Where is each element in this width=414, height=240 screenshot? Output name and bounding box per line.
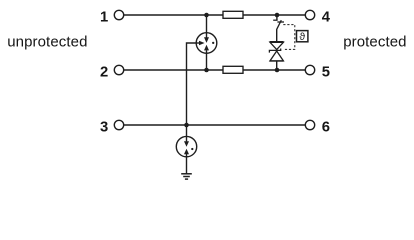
gas discharge tube F1 [196, 33, 217, 54]
svg-text:5: 5 [322, 64, 330, 80]
resistor R1 [223, 11, 243, 18]
dashed link switch to thermal sensor to V1 [283, 25, 295, 50]
wire line3 terminal3 to terminal6 [124, 124, 306, 126]
terminal 5 circle [305, 65, 314, 74]
junction node line2/F1 [204, 68, 209, 73]
terminal 2 circle [114, 65, 123, 74]
svg-text:protected: protected [343, 34, 406, 51]
svg-text:unprotected: unprotected [7, 34, 87, 51]
svg-text:ϑ: ϑ [299, 31, 305, 43]
TVS suppressor diode V1 [269, 42, 283, 61]
terminal 6 circle [305, 120, 314, 129]
wire F1 third electrode to line3 [187, 43, 200, 125]
thermal sensor box [297, 31, 308, 42]
svg-text:6: 6 [322, 119, 330, 135]
resistor R2 [223, 66, 243, 73]
thermal disconnect switch [273, 20, 284, 30]
junction node line1/right branch [275, 13, 280, 18]
svg-text:2: 2 [100, 64, 108, 80]
terminal 3 circle [114, 120, 123, 129]
wire vertical arrester branch x=206.5 line1 to line2 [206, 15, 208, 70]
svg-text:4: 4 [322, 9, 331, 25]
junction node line3/F2 [184, 123, 189, 128]
terminal 4 circle [305, 10, 314, 19]
junction node line1/F1 [204, 13, 209, 18]
ground [181, 174, 192, 179]
junction node line2/right branch [275, 68, 280, 73]
wire line2 terminal2 to terminal5 [124, 69, 306, 71]
gas discharge tube F2 [176, 136, 196, 157]
wire right branch x=277 line1 to line2 [276, 15, 278, 20]
svg-text:3: 3 [100, 119, 108, 135]
terminal 1 circle [114, 10, 123, 19]
svg-text:1: 1 [100, 9, 108, 25]
wire line3 junction to F2 and ground [186, 125, 188, 174]
wire line1 terminal1 to terminal4 [124, 14, 306, 16]
